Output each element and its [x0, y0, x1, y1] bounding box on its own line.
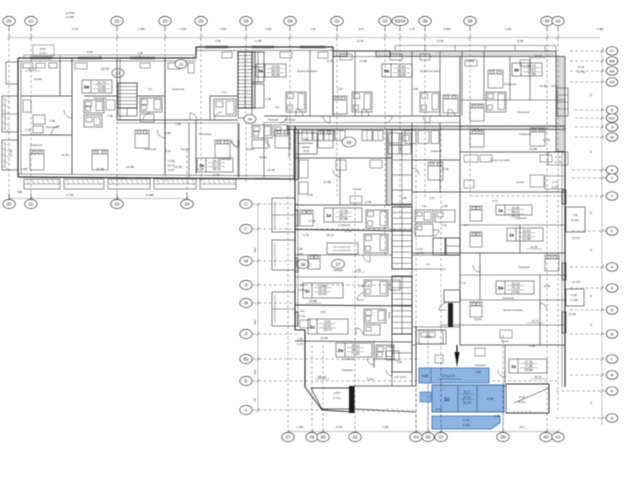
- svg-text:ВВ.1В: ВВ.1В: [318, 375, 326, 379]
- svg-text:30.52: 30.52: [463, 396, 471, 400]
- svg-text:32: 32: [353, 435, 358, 440]
- kitchen counters right section: [299, 155, 552, 203]
- apartment 3ж (left end): [9, 58, 117, 174]
- svg-text:22.4О: 22.4О: [318, 292, 327, 296]
- svg-text:13.4в: 13.4в: [568, 312, 576, 316]
- apartment 1к above blue flat: [460, 345, 547, 386]
- svg-text:Гостиная: Гостиная: [199, 132, 212, 136]
- svg-text:23.00: 23.00: [101, 67, 110, 71]
- svg-text:Л: Л: [245, 283, 248, 288]
- svg-text:С/у: С/у: [148, 87, 153, 91]
- highlighted flat 1с: loggia strip: [419, 368, 489, 383]
- right corner wall (axes 40-41): [556, 57, 565, 152]
- svg-text:и Спальня: и Спальня: [342, 358, 355, 361]
- svg-text:Б: Б: [611, 389, 614, 394]
- svg-text:20.5в: 20.5в: [525, 368, 533, 372]
- svg-text:33: 33: [383, 19, 388, 24]
- svg-text:Я: Я: [611, 108, 614, 113]
- highlighted flat 1с: main block: [432, 385, 504, 412]
- svg-text:5.33: 5.33: [165, 149, 171, 153]
- svg-text:31: 31: [335, 19, 340, 24]
- svg-text:10.ВВ: 10.ВВ: [309, 299, 317, 303]
- svg-text:1с: 1с: [310, 325, 316, 330]
- bottom wall of top wing: [18, 174, 295, 179]
- svg-text:16.00: 16.00: [551, 84, 558, 88]
- svg-text:3.4З: 3.4З: [390, 346, 395, 349]
- svg-text:Ш: Ш: [610, 135, 614, 140]
- svg-text:и Спальня: и Спальня: [338, 223, 351, 227]
- svg-text:21: 21: [29, 202, 34, 207]
- svg-text:2.9В: 2.9В: [358, 285, 363, 288]
- svg-text:40: 40: [544, 435, 549, 440]
- svg-text:12.20: 12.20: [542, 138, 550, 142]
- svg-text:1в.5Н: 1в.5Н: [544, 285, 551, 288]
- apartment 3в #1: [256, 51, 367, 117]
- apartment 2ж (341..385): [315, 342, 394, 379]
- dashed axis lines over highlighted flat: [416, 368, 503, 431]
- svg-text:М: М: [244, 259, 248, 264]
- svg-text:13.1В: 13.1В: [473, 127, 480, 131]
- svg-text:13.4В: 13.4В: [437, 39, 444, 43]
- svg-text:2.6В: 2.6В: [297, 248, 302, 251]
- svg-text:3ж: 3ж: [84, 85, 91, 90]
- misc interior dim texts lower wing: [297, 193, 372, 346]
- svg-text:Кухня: Кухня: [388, 311, 391, 318]
- svg-text:22: 22: [115, 19, 120, 24]
- svg-text:9.14: 9.14: [578, 65, 584, 69]
- svg-text:Кухня-гостиная: Кухня-гостиная: [420, 69, 440, 73]
- svg-text:Коридор: Коридор: [268, 118, 279, 122]
- grid axes: bottom bubble row 27..41: [282, 425, 564, 442]
- svg-text:(1.32): (1.32): [554, 160, 561, 164]
- grid axes: top numbered bubbles: [3, 16, 564, 31]
- corridor south thick wall (hatched) across lower wing top: [287, 126, 565, 130]
- svg-text:7.2В: 7.2В: [49, 119, 55, 123]
- svg-text:1с: 1с: [305, 289, 311, 294]
- svg-text:5.9Л: 5.9Л: [87, 50, 93, 54]
- highlighted flat 1с: terrace strip: [432, 416, 500, 429]
- balconies left edge: [2, 62, 18, 170]
- dimension chain above bottom bubbles row: [287, 430, 560, 433]
- svg-text:29: 29: [310, 435, 315, 440]
- svg-text:2.18: 2.18: [442, 224, 447, 227]
- svg-text:1.87: 1.87: [337, 87, 343, 91]
- dim right of flat: [494, 414, 500, 418]
- svg-text:Гостиная: Гостиная: [94, 96, 107, 100]
- svg-text:15.71: 15.71: [531, 319, 539, 323]
- svg-text:39: 39: [501, 435, 506, 440]
- svg-text:1к: 1к: [509, 233, 515, 238]
- svg-text:17.0В: 17.0В: [167, 159, 174, 163]
- main stairwell axes 25-26: [238, 52, 264, 118]
- apartment 3в #2: [333, 51, 474, 116]
- svg-text:(4.4в): (4.4в): [511, 290, 519, 294]
- svg-text:узел по 7В-й (см 8г): узел по 7В-й (см 8г): [333, 249, 352, 252]
- svg-text:5.9В: 5.9В: [165, 131, 171, 135]
- svg-text:17.в-2.4Г: 17.в-2.4Г: [442, 374, 456, 378]
- svg-text:13.8В: 13.8В: [365, 200, 372, 204]
- svg-text:2в: 2в: [248, 117, 252, 122]
- svg-text:Прихожая: Прихожая: [46, 125, 59, 129]
- svg-text:(1.4?): (1.4?): [417, 252, 423, 255]
- svg-text:1.0В0: 1.0В0: [297, 425, 304, 429]
- svg-text:23: 23: [163, 19, 168, 24]
- svg-text:6.4ВВ: 6.4ВВ: [597, 28, 604, 31]
- dim boxes right edge: [545, 152, 568, 189]
- left wall dark segment at lower wing top: [294, 130, 299, 180]
- svg-text:Кухня: Кухня: [181, 147, 189, 151]
- svg-text:2.7в: 2.7в: [552, 180, 558, 184]
- svg-text:77.4В: 77.4В: [527, 72, 535, 76]
- svg-text:Кухня: Кухня: [259, 155, 267, 159]
- svg-text:7.4В: 7.4В: [310, 28, 315, 31]
- svg-text:11.0В: 11.0В: [517, 39, 524, 43]
- svg-text:6.4ВВ: 6.4ВВ: [146, 193, 154, 197]
- svg-text:Спальня: Спальня: [30, 143, 42, 147]
- right section upper rooms: [401, 192, 565, 253]
- top margin dimension texts: [33, 11, 604, 56]
- right apartments rooms above corridor: [460, 51, 565, 112]
- svg-text:50.9В: 50.9В: [339, 217, 347, 221]
- svg-text:14.7В: 14.7В: [174, 165, 182, 169]
- svg-text:40: 40: [545, 19, 550, 24]
- extra furniture top wing: [23, 52, 530, 170]
- svg-text:5.2В: 5.2В: [25, 128, 31, 132]
- svg-text:13.8В: 13.8В: [323, 180, 331, 184]
- svg-text:Спальня: Спальня: [518, 265, 530, 269]
- electrical room (232..255): [295, 234, 392, 255]
- svg-text:3.4В: 3.4В: [355, 268, 361, 272]
- svg-text:Кухня: Кухня: [353, 187, 361, 191]
- svg-text:14.7В: 14.7В: [212, 173, 219, 177]
- stair label bubble 22a: [112, 69, 124, 78]
- svg-text:12.0В: 12.0В: [345, 229, 352, 233]
- svg-text:13.1В: 13.1В: [357, 39, 364, 43]
- svg-text:Электрощитовая: Электрощитовая: [333, 247, 351, 249]
- svg-text:(1.03): (1.03): [551, 185, 558, 189]
- svg-text:7.7в: 7.7в: [461, 281, 467, 285]
- svg-text:Ж: Ж: [244, 301, 248, 306]
- svg-text:10.00: 10.00: [534, 54, 542, 58]
- svg-text:9В0: 9В0: [253, 247, 257, 252]
- svg-text:+2.в9: +2.в9: [529, 344, 536, 348]
- window hatches on left lower wall: [295, 210, 298, 326]
- svg-text:3.71В: 3.71В: [308, 219, 315, 223]
- svg-text:9.00: 9.00: [320, 310, 326, 314]
- window sill line above hatched top wall: [395, 46, 556, 52]
- svg-text:Спальня: Спальня: [502, 296, 514, 300]
- svg-text:С: С: [244, 202, 247, 207]
- utility room & kitchen band (126..205): [295, 133, 412, 205]
- svg-text:6В0: 6В0: [253, 319, 257, 324]
- svg-text:(0.8В): (0.8В): [297, 253, 304, 256]
- svg-text:9.7В: 9.7В: [307, 193, 313, 197]
- dimension chain above top wall: [8, 36, 601, 39]
- lower wing left exterior wall: [295, 126, 354, 412]
- top wing lower row rooms (117..295, 123..177): [231, 123, 264, 178]
- svg-text:Кухня-гостиная: Кухня-гостиная: [503, 308, 523, 312]
- svg-text:5.1В: 5.1В: [409, 28, 414, 31]
- sill line above left top wall: [24, 55, 194, 58]
- svg-text:Спальня: Спальня: [219, 157, 231, 161]
- svg-text:1.7ВВ: 1.7ВВ: [138, 28, 145, 31]
- svg-text:3В: 3В: [253, 398, 257, 401]
- balcony row along bottom of top wing: [24, 179, 236, 189]
- svg-text:39.73: 39.73: [324, 328, 332, 332]
- svg-text:16.0В: 16.0В: [539, 84, 547, 88]
- terrace bottom-left: [311, 388, 354, 409]
- svg-text:4.7В: 4.7В: [463, 418, 469, 422]
- svg-text:20: 20: [7, 19, 12, 24]
- stair column upper cells (392..412, 130..204): [387, 130, 413, 206]
- svg-text:(7.41.): (7.41.): [333, 396, 341, 400]
- svg-text:5.4В: 5.4В: [137, 51, 143, 55]
- svg-text:Ж: Ж: [610, 332, 614, 337]
- svg-text:22: 22: [115, 202, 120, 207]
- svg-text:Кухня: Кухня: [474, 317, 482, 321]
- svg-text:25: 25: [199, 19, 204, 24]
- svg-text:1.4Г (1.4?): 1.4Г (1.4?): [394, 375, 407, 379]
- extra text dims scattered: [137, 51, 479, 233]
- bay window on right wall: [551, 84, 568, 116]
- lower wing left balconies: [272, 198, 295, 326]
- dimension chain right column: [601, 47, 604, 425]
- svg-text:28: 28: [288, 19, 293, 24]
- beds in right rooms: [470, 57, 530, 147]
- svg-text:8.5О: 8.5О: [40, 47, 47, 51]
- corridor bubble 2в: [244, 115, 279, 124]
- svg-text:43.7в: 43.7в: [534, 375, 542, 379]
- svg-text:35: 35: [423, 19, 428, 24]
- svg-text:75.0В: 75.0В: [97, 89, 105, 93]
- svg-text:С/у: С/у: [222, 90, 227, 94]
- svg-text:Спальня: Спальня: [474, 363, 486, 367]
- dash line for axis 24: [186, 150, 188, 199]
- windows along top wall: [30, 46, 325, 59]
- grid axes: right letter bubble column: [470, 47, 618, 423]
- dimension chain left lower column: [257, 203, 260, 413]
- svg-text:5.7в: 5.7в: [555, 155, 561, 159]
- svg-text:У: У: [611, 176, 614, 181]
- svg-text:4.700: 4.700: [66, 193, 74, 197]
- svg-text:1к: 1к: [326, 213, 332, 218]
- top wall hatched section axes 31-41: [333, 51, 556, 57]
- svg-text:1к: 1к: [199, 163, 205, 168]
- svg-text:71.6З: 71.6З: [351, 352, 359, 356]
- svg-text:23: 23: [179, 62, 184, 67]
- svg-text:49.1В: 49.1В: [271, 73, 279, 77]
- svg-text:С/у: С/у: [275, 105, 280, 109]
- svg-text:(0.8В): (0.8В): [299, 289, 306, 292]
- svg-text:13.4В: 13.4В: [126, 165, 134, 169]
- svg-text:29: 29: [347, 140, 352, 145]
- svg-text:6.4ВВ: 6.4ВВ: [444, 28, 451, 31]
- svg-text:13.4В: 13.4В: [267, 168, 274, 172]
- svg-text:38: 38: [468, 19, 473, 24]
- svg-text:6.50В: 6.50В: [265, 28, 272, 31]
- svg-text:5.0В: 5.0В: [422, 374, 429, 378]
- entrance arrow to flat 1с: [455, 345, 460, 367]
- right section rooms (460..565, 100..190): [412, 57, 565, 345]
- svg-text:11.15: 11.15: [28, 67, 36, 71]
- svg-text:6.2 ВВ: 6.2 ВВ: [66, 15, 74, 19]
- apartment middle-left (137..196): [117, 58, 189, 174]
- svg-text:12.4: 12.4: [464, 224, 469, 227]
- svg-text:1.95в: 1.95в: [505, 28, 512, 31]
- svg-text:12.4В: 12.4В: [442, 167, 449, 171]
- svg-text:3.0З: 3.0З: [418, 248, 423, 251]
- svg-text:23.1О: 23.1О: [167, 164, 174, 168]
- dimension chain bottom-left row: [8, 197, 189, 200]
- svg-text:Кухня-гостиная: Кухня-гостиная: [490, 158, 510, 162]
- svg-text:14.7В: 14.7В: [96, 167, 104, 171]
- svg-text:В: В: [611, 373, 614, 378]
- svg-text:2ж: 2ж: [338, 348, 345, 353]
- right section middle rooms: [440, 225, 565, 345]
- svg-text:13.0О: 13.0О: [572, 236, 581, 240]
- svg-text:1к: 1к: [511, 364, 517, 369]
- svg-text:2в: 2в: [301, 262, 306, 267]
- svg-text:(1.1О): (1.1О): [297, 343, 304, 346]
- svg-text:Кухня: Кухня: [516, 180, 524, 184]
- svg-text:(1.в9): (1.в9): [571, 218, 578, 222]
- lower wing bottom-right rooms exterior: [506, 384, 549, 413]
- svg-text:10.00: 10.00: [530, 245, 538, 249]
- svg-text:5.6В: 5.6В: [396, 361, 401, 364]
- svg-text:14.4?: 14.4?: [436, 407, 443, 411]
- svg-text:4.1В: 4.1В: [475, 370, 481, 374]
- svg-text:(1.2В): (1.2В): [570, 298, 577, 302]
- svg-text:5.61: 5.61: [300, 310, 305, 313]
- grid axes: bottom-left bubble row 20 21 22 24: [3, 190, 193, 209]
- svg-text:26: 26: [244, 19, 249, 24]
- svg-text:5.0В: 5.0В: [443, 205, 448, 208]
- cells right of bubble 29 (388..410,133..155): [388, 133, 411, 154]
- svg-text:4.0В: 4.0В: [571, 293, 577, 297]
- svg-text:1.50В: 1.50В: [180, 28, 187, 31]
- svg-text:14.7В: 14.7В: [61, 153, 69, 157]
- svg-text:3.4В: 3.4В: [297, 338, 302, 341]
- svg-text:28.7в: 28.7в: [213, 167, 221, 171]
- svg-text:4.6??: 4.6??: [334, 391, 341, 395]
- svg-text:И: И: [611, 308, 614, 313]
- svg-text:(2.25.): (2.25.): [39, 51, 47, 55]
- svg-text:32.25: 32.25: [463, 401, 471, 405]
- highlighted flat 1с: small west room: [420, 392, 431, 402]
- svg-text:13.4В: 13.4В: [320, 336, 327, 340]
- stair bubble 23a: [175, 60, 187, 69]
- svg-text:(3.01.): (3.01.): [518, 400, 526, 404]
- svg-text:4.2в: 4.2в: [422, 205, 427, 208]
- top wing exterior walls: [18, 47, 333, 61]
- svg-text:16.00: 16.00: [303, 149, 310, 153]
- rooms above blue flat (354..416, 342..386): [354, 326, 416, 412]
- svg-text:9.17: 9.17: [464, 390, 470, 394]
- corridor with bubbles 2в 27: [295, 255, 412, 277]
- svg-text:(1.4В): (1.4В): [462, 423, 470, 427]
- svg-text:36: 36: [426, 435, 431, 440]
- svg-text:16.4В: 16.4В: [529, 147, 537, 151]
- svg-text:1.40В: 1.40В: [21, 167, 28, 171]
- room (412..460, 122..192) with bed: [412, 123, 460, 193]
- svg-text:1В.2: 1В.2: [519, 425, 525, 429]
- svg-text:4.4З: 4.4З: [519, 395, 525, 399]
- svg-text:(1.1З): (1.1З): [299, 315, 306, 318]
- svg-text:в: в: [611, 168, 613, 173]
- apartment (196..238): [196, 90, 238, 174]
- svg-text:7.51В: 7.51В: [382, 425, 389, 429]
- svg-text:Ю2: Ю2: [609, 116, 616, 121]
- svg-text:1.4В: 1.4В: [412, 87, 418, 91]
- svg-text:22.4В: 22.4В: [522, 237, 530, 241]
- svg-text:3в: 3в: [384, 69, 390, 74]
- svg-text:49.1В: 49.1В: [397, 73, 405, 77]
- svg-text:3ж: 3ж: [498, 286, 505, 291]
- svg-text:ЛЛ: ЛЛ: [609, 80, 615, 85]
- bathroom cluster (412..460, 205..255): [412, 205, 460, 386]
- svg-text:Кухня-гостиная: Кухня-гостиная: [297, 69, 317, 73]
- svg-text:5.2В: 5.2В: [215, 39, 221, 43]
- svg-text:17.0В: 17.0В: [9, 149, 13, 156]
- svg-text:(2.75): (2.75): [577, 70, 585, 74]
- svg-text:40.1В: 40.1В: [336, 425, 343, 429]
- svg-text:4.0В: 4.0В: [494, 414, 500, 418]
- svg-text:В2: В2: [243, 357, 249, 362]
- svg-text:2.5А: 2.5А: [429, 196, 435, 200]
- svg-text:АА: АА: [609, 69, 615, 74]
- svg-text:20: 20: [7, 202, 12, 207]
- svg-text:37: 37: [439, 435, 444, 440]
- svg-text:Спальня: Спальня: [172, 87, 184, 91]
- svg-text:коридор: коридор: [333, 269, 343, 272]
- svg-text:Б: Б: [245, 379, 248, 384]
- storage cells row under corridor wall: [302, 131, 439, 144]
- svg-text:1.13В: 1.13В: [255, 39, 262, 43]
- svg-text:Кухня: Кухня: [34, 77, 42, 81]
- svg-text:21: 21: [29, 19, 34, 24]
- stair bubble 29: [342, 137, 356, 147]
- svg-text:5.9В: 5.9В: [487, 397, 494, 401]
- svg-text:выделенный: выделенный: [299, 142, 314, 145]
- svg-text:АВБ: АВБ: [17, 190, 22, 194]
- apartment 4е: [412, 51, 546, 116]
- svg-text:34: 34: [414, 435, 419, 440]
- extra furniture lower wing: [300, 206, 559, 363]
- svg-text:14.3П: 14.3П: [572, 280, 580, 284]
- svg-text:кабинет: кабинет: [302, 146, 312, 149]
- svg-text:13.4В: 13.4В: [466, 59, 474, 63]
- apartment 1с #2 (306..341): [295, 309, 412, 342]
- svg-text:Р: Р: [611, 229, 614, 234]
- svg-text:7.30: 7.30: [572, 213, 578, 217]
- svg-text:7.3В: 7.3В: [107, 114, 113, 118]
- apartment 1с #1 (277..305): [295, 280, 412, 306]
- grid axes: left letter bubble column: [240, 199, 560, 414]
- svg-text:5.7З: 5.7З: [493, 200, 498, 203]
- left exterior wall: [18, 58, 21, 177]
- svg-text:2.90В: 2.90В: [220, 28, 227, 31]
- hatch in left edge balconies: [2, 98, 10, 170]
- svg-text:Спальня: Спальня: [431, 149, 442, 153]
- svg-text:27: 27: [286, 435, 291, 440]
- svg-text:2.1В: 2.1В: [265, 97, 271, 101]
- lower wing main stairwell: [392, 207, 412, 372]
- apartment 1к lower row (189..295): [165, 123, 289, 177]
- grid axes: vertical dashed lines: [9, 28, 558, 432]
- svg-text:1к: 1к: [498, 208, 504, 213]
- svg-text:41: 41: [556, 435, 561, 440]
- hatched pier at axis 32: [349, 386, 355, 413]
